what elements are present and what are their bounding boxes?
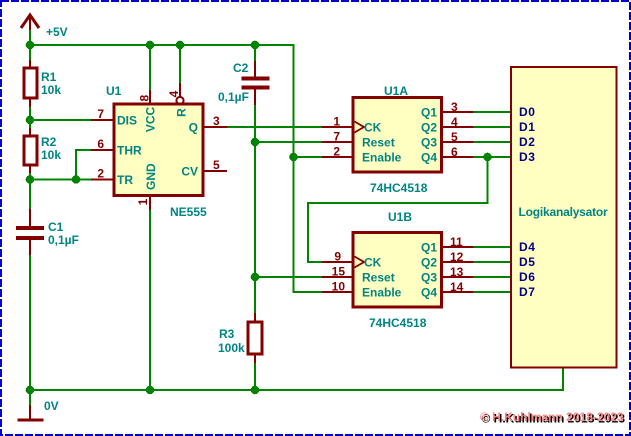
- pin 7 DIS stub: [91, 119, 114, 121]
- svg-text:5: 5: [451, 130, 458, 144]
- svg-text:D3: D3: [519, 150, 536, 164]
- svg-text:10: 10: [332, 280, 346, 294]
- wire R1 to DIS node: [29, 106, 31, 120]
- svg-text:CV: CV: [181, 165, 198, 179]
- svg-text:TR: TR: [117, 173, 133, 187]
- svg-text:Q2: Q2: [421, 256, 437, 270]
- pin 5 Q3 stub: [441, 141, 473, 143]
- svg-text:Q3: Q3: [421, 136, 437, 150]
- svg-text:4: 4: [451, 115, 458, 129]
- pin 6 THR stub: [91, 149, 114, 151]
- wire DIS: [30, 119, 92, 121]
- svg-text:Q4: Q4: [421, 151, 437, 165]
- svg-text:2: 2: [333, 145, 340, 159]
- pin 10 Enable stub: [322, 291, 353, 293]
- svg-text:6: 6: [97, 137, 104, 151]
- junction U1A reset: [251, 138, 260, 147]
- wire Q1B to D4: [472, 246, 511, 248]
- clock triangle: [355, 122, 365, 133]
- svg-text:R3: R3: [219, 327, 235, 341]
- wire C1 to 0V rail: [29, 254, 31, 390]
- junction R3 on 0V rail: [251, 386, 260, 395]
- svg-text:Q1: Q1: [421, 241, 437, 255]
- pin 3 Q stub: [203, 126, 227, 128]
- pin 11 Q1 stub: [441, 246, 473, 248]
- wire Q4B to D7: [472, 291, 511, 293]
- wire Q3 to D2: [472, 141, 511, 143]
- svg-text:10k: 10k: [41, 83, 61, 97]
- svg-text:0,1µF: 0,1µF: [218, 90, 249, 104]
- pin 1 GND stub: [149, 196, 151, 210]
- wire U1A reset: [255, 141, 323, 143]
- svg-text:R: R: [175, 108, 189, 117]
- svg-text:Logikanalysator: Logikanalysator: [519, 205, 609, 219]
- svg-text:U1: U1: [106, 84, 122, 98]
- svg-text:14: 14: [450, 280, 464, 294]
- ground 0V: [18, 390, 59, 422]
- pin 5 CV stub: [203, 170, 227, 172]
- svg-text:Enable: Enable: [362, 151, 402, 165]
- wire R3 to 0V rail: [254, 362, 256, 390]
- wire GND drop: [149, 209, 151, 390]
- svg-text:74HC4518: 74HC4518: [369, 316, 427, 330]
- svg-text:C1: C1: [48, 220, 64, 234]
- pin 2 Enable stub: [322, 156, 353, 158]
- junction U1A enable: [289, 153, 298, 162]
- body: [353, 98, 442, 173]
- svg-text:0V: 0V: [44, 399, 59, 413]
- svg-text:11: 11: [450, 235, 463, 249]
- wire Q to CK1: [227, 126, 323, 128]
- wire TR node to C1: [29, 180, 31, 211]
- svg-text:D6: D6: [519, 270, 536, 284]
- op-amp U1 NE555: [91, 83, 227, 219]
- svg-text:D2: D2: [519, 135, 536, 149]
- pin 7 Reset stub: [322, 141, 353, 143]
- svg-text:Q2: Q2: [421, 121, 437, 135]
- resistor R3: [218, 313, 262, 363]
- pin 8 VCC stub: [149, 90, 151, 104]
- pin 13 Q3 stub: [441, 276, 473, 278]
- wire THR branch: [76, 150, 92, 180]
- svg-text:12: 12: [450, 250, 464, 264]
- svg-text:15: 15: [332, 265, 346, 279]
- svg-text:VCC: VCC: [144, 107, 158, 133]
- counter U1A 74HC4518: [322, 84, 473, 195]
- svg-text:Q: Q: [189, 121, 198, 135]
- wire +5V vertical to enable pins: [294, 44, 324, 292]
- capacitor C1: [16, 209, 79, 255]
- svg-text:7: 7: [97, 107, 104, 121]
- wire VCC drop: [149, 45, 151, 91]
- svg-text:THR: THR: [117, 144, 142, 158]
- pin 1 CK stub: [322, 126, 353, 128]
- svg-text:3: 3: [213, 114, 220, 128]
- svg-text:R2: R2: [41, 135, 57, 149]
- pin 3 Q1 stub: [441, 111, 473, 113]
- wire TR: [30, 179, 92, 181]
- junction VCC on rail: [146, 41, 155, 50]
- svg-text:5: 5: [213, 158, 220, 172]
- sheet Logikanalysator: [511, 67, 617, 368]
- wire Q4 feedback to CK9: [308, 157, 488, 262]
- svg-text:CK: CK: [364, 256, 382, 270]
- wire +5V stem: [29, 30, 31, 45]
- body: [114, 104, 203, 196]
- svg-text:GND: GND: [144, 163, 158, 190]
- body: [353, 233, 442, 308]
- svg-text:0,1µF: 0,1µF: [48, 233, 79, 247]
- junction R pin4 on rail: [176, 41, 185, 50]
- wire R pin4 drop: [179, 45, 181, 84]
- junction U1B reset: [251, 273, 260, 282]
- svg-text:C2: C2: [233, 61, 249, 75]
- svg-text:6: 6: [451, 145, 458, 159]
- pin 15 Reset stub: [322, 276, 353, 278]
- svg-text:D0: D0: [519, 105, 536, 119]
- pin 4 R stub with bubble: [179, 83, 181, 97]
- pin 4 Q2 stub: [441, 126, 473, 128]
- svg-text:9: 9: [334, 250, 341, 264]
- svg-text:4: 4: [167, 90, 181, 97]
- svg-text:Reset: Reset: [362, 136, 395, 150]
- svg-text:D1: D1: [519, 120, 536, 134]
- junction C2 on rail: [251, 41, 260, 50]
- resistor R2: [24, 128, 61, 173]
- svg-text:8: 8: [138, 95, 152, 102]
- wire Q2B to D5: [472, 261, 511, 263]
- wire Q3B to D6: [472, 276, 511, 278]
- svg-text:R1: R1: [41, 70, 57, 84]
- wire rail to R1: [29, 45, 31, 61]
- wire top +5V rail: [30, 44, 294, 46]
- svg-text:2: 2: [97, 167, 104, 181]
- clock triangle: [355, 257, 365, 268]
- wire U1B reset: [255, 276, 323, 278]
- svg-text:Q3: Q3: [421, 271, 437, 285]
- pin 12 Q2 stub: [441, 261, 473, 263]
- svg-text:Enable: Enable: [362, 286, 402, 300]
- svg-text:74HC4518: 74HC4518: [370, 181, 428, 195]
- copyright: [480, 410, 625, 426]
- svg-text:10k: 10k: [41, 148, 61, 162]
- junction TR node left: [26, 175, 35, 184]
- svg-text:1: 1: [333, 115, 340, 129]
- svg-text:100k: 100k: [218, 341, 245, 355]
- svg-text:1: 1: [136, 198, 150, 205]
- svg-text:+5V: +5V: [46, 25, 68, 39]
- junction 0V rail left: [26, 386, 35, 395]
- svg-text:13: 13: [450, 265, 464, 279]
- svg-text:NE555: NE555: [170, 205, 207, 219]
- svg-text:Q1: Q1: [421, 106, 437, 120]
- wire sheet ground riser: [562, 367, 564, 391]
- junction TR/THR node: [72, 175, 81, 184]
- svg-text:U1B: U1B: [388, 210, 412, 224]
- wire reset vertical C2 to R3: [254, 104, 256, 314]
- resistor R1: [24, 60, 61, 107]
- wire Q4 to D3: [472, 156, 511, 158]
- wire R2 to TR node: [29, 172, 31, 180]
- svg-text:© H.Kuhlmann 2018-2023: © H.Kuhlmann 2018-2023: [480, 410, 624, 424]
- svg-text:D7: D7: [519, 285, 536, 299]
- pin 2 TR stub: [91, 179, 114, 181]
- junction top rail / +5V: [26, 41, 35, 50]
- junction GND on 0V rail: [146, 386, 155, 395]
- junction Q4/D3 feedback: [483, 153, 492, 162]
- svg-text:Reset: Reset: [362, 271, 395, 285]
- svg-text:U1A: U1A: [384, 84, 408, 98]
- svg-text:D5: D5: [519, 255, 536, 269]
- wire DIS node to R2: [29, 120, 31, 129]
- svg-text:DIS: DIS: [117, 114, 137, 128]
- pin 14 Q4 stub: [441, 291, 473, 293]
- svg-text:D4: D4: [519, 240, 536, 254]
- pin 9 CK stub: [322, 261, 353, 263]
- junction DIS node: [26, 116, 35, 125]
- capacitor C2: [218, 61, 270, 105]
- counter U1B 74HC4518: [322, 210, 473, 330]
- wire Q1 to D0: [472, 111, 511, 113]
- pin 6 Q4 stub: [441, 156, 473, 158]
- svg-text:CK: CK: [364, 121, 382, 135]
- power +5V: [21, 15, 68, 39]
- wire U1A enable: [294, 156, 324, 158]
- wire 0V rail: [30, 389, 563, 391]
- svg-text:Q4: Q4: [421, 286, 437, 300]
- svg-text:7: 7: [333, 130, 340, 144]
- wire C2 drop: [254, 45, 256, 62]
- wire Q2 to D1: [472, 126, 511, 128]
- svg-text:3: 3: [451, 100, 458, 114]
